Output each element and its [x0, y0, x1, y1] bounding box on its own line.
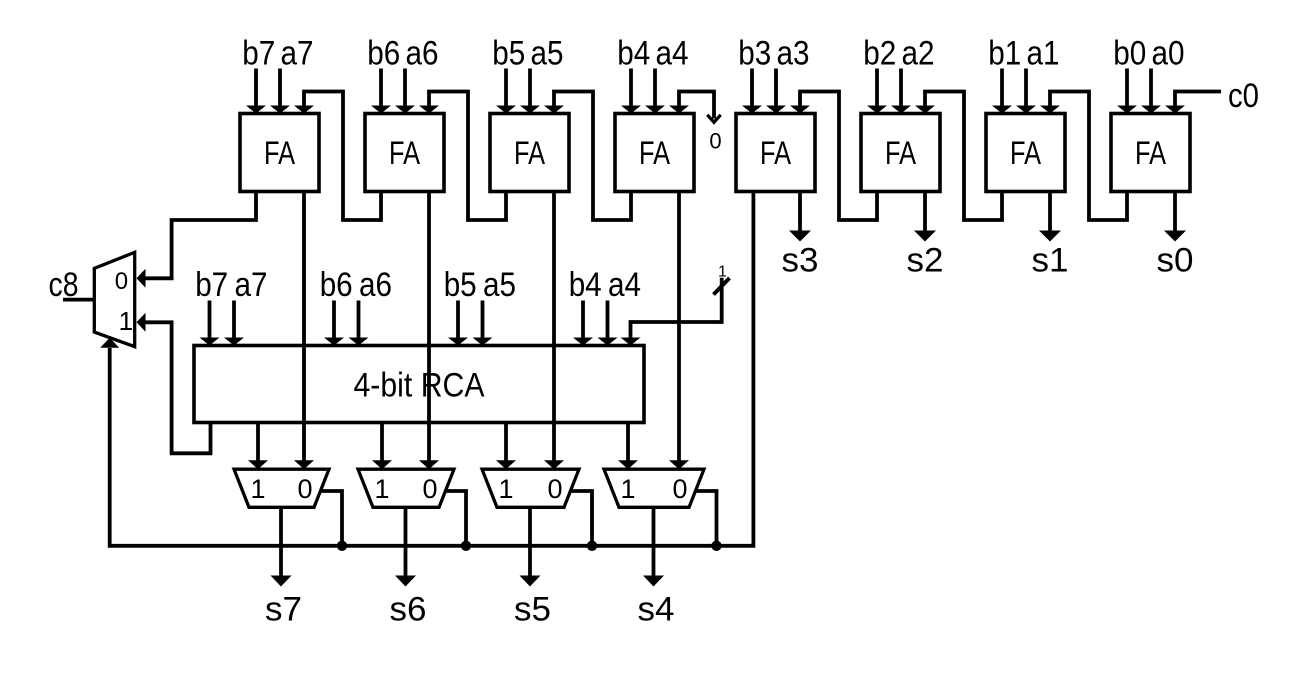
RCA label b7 a7: [195, 266, 267, 304]
input b4 wire into U4: [621, 69, 641, 114]
svg-text:s0: s0: [1157, 242, 1194, 280]
RCA input a4 wire: [598, 301, 618, 346]
mux U11 (selects s5): [482, 469, 579, 507]
mux U10 (selects s6): [358, 469, 454, 507]
svg-text:FA: FA: [1135, 135, 1167, 171]
wire c8 output: [63, 298, 94, 302]
svg-text:1: 1: [250, 474, 265, 504]
svg-text:a5: a5: [483, 266, 516, 304]
label s1: [1032, 242, 1069, 280]
svg-text:FA: FA: [885, 135, 917, 171]
label 1 (mux s7): [250, 474, 265, 504]
wire carry-out U2 to carry-in U1: [294, 92, 381, 221]
svg-text:FA: FA: [1010, 135, 1042, 171]
svg-text:a6: a6: [406, 35, 439, 73]
RCA input a7 wire: [224, 301, 244, 346]
svg-text:FA: FA: [264, 135, 296, 171]
svg-text:a5: a5: [531, 35, 564, 73]
svg-text:FA: FA: [760, 135, 792, 171]
wire constant-0 to carry-in U4: [669, 92, 714, 119]
input a1 wire into U7: [1016, 69, 1036, 114]
RCA input b5 wire: [448, 301, 468, 346]
slash bus-width mark: [714, 278, 730, 295]
junction dot (select bus, mux s4): [711, 541, 721, 551]
wire carry-out U1 to c8-mux input 0: [137, 192, 257, 288]
wire sum U4 (s4 candidate, carry 0) to mux input 0: [669, 192, 689, 470]
svg-text:a4: a4: [608, 266, 641, 304]
RCA label b4 a4: [569, 266, 641, 304]
output s2 arrow: [914, 192, 936, 242]
mux U9 (selects s7): [234, 469, 329, 507]
svg-text:a7: a7: [235, 266, 268, 304]
label b7 a7: [242, 35, 313, 73]
svg-text:0: 0: [422, 474, 437, 504]
label b0 a0: [1113, 35, 1184, 73]
svg-text:4-bit RCA: 4-bit RCA: [354, 367, 485, 405]
wire carry-out U8 to carry-in U7: [1040, 92, 1127, 221]
svg-text:1: 1: [718, 264, 727, 281]
svg-text:b6: b6: [320, 266, 353, 304]
wire sum U2 (s6 candidate, carry 0) to mux input 0: [419, 192, 439, 470]
svg-text:0: 0: [297, 474, 312, 504]
svg-text:c0: c0: [1228, 77, 1259, 115]
select wire into mux s5: [570, 491, 592, 546]
svg-text:b4: b4: [569, 266, 602, 304]
RCA label b6 a6: [320, 266, 392, 304]
label s4: [638, 591, 675, 629]
wire c0 to carry-in U8: [1165, 92, 1221, 114]
wire carry-out U3 to carry-in U2: [419, 92, 506, 221]
select wire into mux s6: [445, 491, 466, 546]
wire c4 select bus (carry-out U5 to mux selects): [100, 192, 753, 546]
wire carry-out U7 to carry-in U6: [915, 92, 1002, 221]
svg-text:FA: FA: [639, 135, 671, 171]
full adder U4 (FA, bits b4 a4): [615, 114, 694, 192]
full adder U2 (FA, bits b6 a6): [365, 114, 444, 192]
label 0 (mux s7): [297, 474, 312, 504]
label 0 (constant carry-in): [709, 129, 721, 154]
svg-text:s6: s6: [390, 591, 427, 629]
input a7 wire into U1: [270, 69, 290, 114]
label 1 (mux s6): [374, 474, 389, 504]
wire carry-out U4 to carry-in U3: [544, 92, 631, 221]
RCA label b5 a5: [444, 266, 516, 304]
svg-text:a0: a0: [1152, 35, 1185, 73]
input b6 wire into U2: [371, 69, 391, 114]
input b0 wire into U8: [1117, 69, 1137, 114]
full adder U5 (FA, bits b3 a3): [736, 114, 815, 192]
input a4 wire into U4: [645, 69, 665, 114]
output s5 arrow: [520, 507, 541, 586]
label s6: [390, 591, 427, 629]
svg-text:b1: b1: [988, 35, 1021, 73]
select wire into mux s7: [320, 491, 342, 546]
full adder U3 (FA, bits b5 a5): [490, 114, 569, 192]
output s1 arrow: [1039, 192, 1061, 242]
label b6 a6: [367, 35, 438, 73]
mux U12 (selects s4): [604, 469, 704, 507]
output s3 arrow: [789, 192, 811, 242]
RCA input b6 wire: [324, 301, 344, 346]
svg-text:0: 0: [709, 129, 721, 154]
select wire into mux s4: [695, 491, 716, 546]
junction dot (select bus, mux s6): [461, 541, 471, 551]
svg-text:s2: s2: [907, 242, 944, 280]
label 1 (mux s4): [620, 474, 635, 504]
label c8: [49, 266, 79, 304]
svg-text:b7: b7: [195, 266, 228, 304]
wire carry-out U6 to carry-in U5: [790, 92, 877, 221]
output s4 arrow: [643, 507, 664, 586]
svg-text:b4: b4: [617, 35, 650, 73]
svg-text:b7: b7: [242, 35, 275, 73]
label 1 (c8-mux input): [119, 306, 133, 336]
svg-text:b5: b5: [444, 266, 477, 304]
input b1 wire into U7: [992, 69, 1012, 114]
input b3 wire into U5: [742, 69, 762, 114]
input b2 wire into U6: [867, 69, 887, 114]
RCA sum output s5 candidate (carry 1) to mux input 1: [496, 423, 516, 470]
svg-text:b3: b3: [738, 35, 771, 73]
RCA input b4 wire: [573, 301, 593, 346]
RCA sum output s6 candidate (carry 1) to mux input 1: [372, 423, 392, 470]
full adder U1 (FA, bits b7 a7): [240, 114, 319, 192]
label 1 (mux s5): [498, 474, 513, 504]
input b7 wire into U1: [246, 69, 266, 114]
input a3 wire into U5: [766, 69, 786, 114]
svg-text:1: 1: [620, 474, 635, 504]
svg-text:s4: s4: [638, 591, 675, 629]
RCA input b7 wire: [200, 301, 220, 346]
label 0 (mux s6): [422, 474, 437, 504]
label 0 (c8-mux input): [115, 268, 128, 295]
input a6 wire into U2: [395, 69, 415, 114]
label b5 a5: [492, 35, 563, 73]
RCA sum output s7 candidate (carry 1) to mux input 1: [248, 423, 268, 470]
label b2 a2: [863, 35, 934, 73]
svg-text:c8: c8: [49, 266, 79, 304]
svg-text:s5: s5: [514, 591, 551, 629]
full adder U6 (FA, bits b2 a2): [861, 114, 940, 192]
svg-text:s7: s7: [265, 591, 302, 629]
svg-text:s1: s1: [1032, 242, 1069, 280]
svg-text:0: 0: [115, 268, 128, 295]
label c0: [1228, 77, 1259, 115]
full adder U7 (FA, bits b1 a1): [986, 114, 1065, 192]
label s5: [514, 591, 551, 629]
svg-text:a7: a7: [281, 35, 314, 73]
label b1 a1: [988, 35, 1059, 73]
label s3: [782, 242, 819, 280]
svg-text:1: 1: [119, 306, 133, 336]
svg-text:s3: s3: [782, 242, 819, 280]
svg-text:0: 0: [547, 474, 562, 504]
label 0 (mux s4): [672, 474, 687, 504]
svg-text:a1: a1: [1027, 35, 1060, 73]
svg-text:a6: a6: [359, 266, 392, 304]
svg-text:1: 1: [374, 474, 389, 504]
constant 0 open arrowhead: [707, 115, 720, 123]
label s0: [1157, 242, 1194, 280]
input a2 wire into U6: [891, 69, 911, 114]
RCA input a5 wire: [473, 301, 493, 346]
svg-text:b2: b2: [863, 35, 896, 73]
4-bit RCA block: [194, 346, 644, 423]
svg-text:b6: b6: [367, 35, 400, 73]
RCA sum output s4 candidate (carry 1) to mux input 1: [618, 423, 638, 470]
svg-text:b0: b0: [1113, 35, 1146, 73]
wire RCA carry-out to c8-mux input 1: [137, 313, 211, 454]
wire constant-1 to RCA carry-in: [621, 278, 722, 346]
wire sum U3 (s5 candidate, carry 0) to mux input 0: [544, 192, 564, 470]
label 0 (mux s5): [547, 474, 562, 504]
input b5 wire into U3: [496, 69, 516, 114]
junction dot (select bus, mux s5): [587, 541, 597, 551]
svg-text:a2: a2: [902, 35, 935, 73]
output s6 arrow: [395, 507, 416, 586]
svg-text:FA: FA: [514, 135, 546, 171]
junction dot (select bus, mux s7): [337, 541, 347, 551]
svg-text:b5: b5: [492, 35, 525, 73]
label s2: [907, 242, 944, 280]
input a0 wire into U8: [1141, 69, 1161, 114]
svg-text:a4: a4: [656, 35, 689, 73]
input a5 wire into U3: [520, 69, 540, 114]
label b4 a4: [617, 35, 688, 73]
mux U13 (c8 select mux): [94, 252, 134, 346]
full adder U8 (FA, bits b0 a0): [1111, 114, 1190, 192]
output s7 arrow: [271, 507, 292, 586]
svg-text:1: 1: [498, 474, 513, 504]
svg-text:0: 0: [672, 474, 687, 504]
label b3 a3: [738, 35, 809, 73]
output s0 arrow: [1164, 192, 1186, 242]
label s7: [265, 591, 302, 629]
svg-text:FA: FA: [389, 135, 421, 171]
svg-text:a3: a3: [777, 35, 810, 73]
wire sum U1 (s7 candidate, carry 0) to mux input 0: [294, 192, 314, 470]
RCA input a6 wire: [349, 301, 369, 346]
label 1 (constant carry-in): [718, 264, 727, 281]
